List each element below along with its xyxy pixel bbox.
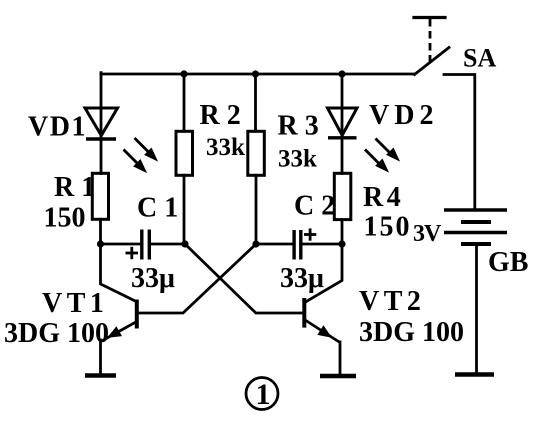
- figure number circle 1: [246, 378, 278, 412]
- ground VT2 emitter: [320, 374, 356, 379]
- svg-text:SA: SA: [463, 44, 496, 73]
- resistor R4: [334, 173, 351, 219]
- wire R2 to node B: [183, 175, 186, 244]
- svg-text:C 1: C 1: [137, 193, 178, 224]
- wire node A to C1: [101, 243, 141, 246]
- wire battery negative to ground: [475, 246, 478, 373]
- svg-text:VD1: VD1: [28, 112, 87, 143]
- wire switch right contact to battery: [444, 75, 475, 209]
- battery GB: [444, 210, 507, 244]
- svg-text:150: 150: [44, 203, 86, 234]
- transistor VT1: [101, 244, 137, 374]
- wire R4 to node D: [341, 220, 344, 244]
- wire node C to VT1 base cross-coupling: [139, 244, 256, 313]
- node VD2 top junction: [338, 70, 345, 77]
- wire VD2 to R4: [341, 139, 344, 174]
- node B: [181, 240, 188, 247]
- wire node B to VT2 base cross-coupling: [185, 244, 302, 313]
- ground battery: [455, 372, 494, 377]
- wire C2 to node D: [303, 243, 343, 246]
- svg-text:VT2: VT2: [359, 286, 425, 317]
- svg-text:VT1: VT1: [42, 288, 108, 319]
- svg-text:R 2: R 2: [200, 100, 241, 131]
- svg-text:33μ: 33μ: [280, 263, 324, 294]
- wire VD1 to R1: [100, 141, 103, 174]
- wire top rail: [101, 73, 414, 76]
- svg-text:R 1: R 1: [54, 172, 95, 203]
- wire R2 top drop: [183, 74, 186, 131]
- node C: [252, 240, 259, 247]
- node R3 top junction: [252, 70, 259, 77]
- svg-text:3DG 100: 3DG 100: [359, 317, 464, 348]
- wire R3 top drop: [254, 74, 257, 131]
- switch SA: [414, 18, 449, 75]
- svg-text:C 2: C 2: [294, 191, 335, 222]
- capacitor C1: [126, 230, 150, 260]
- svg-text:R4: R4: [363, 182, 404, 213]
- wire C1 to node B: [151, 243, 185, 246]
- svg-text:3DG 100: 3DG 100: [4, 318, 109, 349]
- transistor VT2: [304, 244, 342, 374]
- svg-text:1: 1: [256, 378, 271, 411]
- wire R3 to node C: [255, 175, 258, 244]
- resistor R3: [248, 131, 264, 175]
- svg-text:3V: 3V: [413, 221, 442, 247]
- ground VT1 emitter: [85, 373, 116, 378]
- wire node C to C2: [256, 243, 293, 246]
- resistor R2: [176, 131, 193, 175]
- capacitor C2: [294, 228, 316, 259]
- LED VD2: [328, 108, 399, 171]
- node D collector VT2: [338, 240, 345, 247]
- svg-text:R 3: R 3: [278, 111, 319, 142]
- svg-text:33k: 33k: [206, 134, 245, 161]
- resistor R1: [92, 173, 108, 219]
- node A collector VT1: [97, 240, 104, 247]
- svg-text:GB: GB: [488, 247, 528, 278]
- wire VD2 anode drop: [341, 74, 344, 138]
- wire R1 to node A: [99, 219, 102, 244]
- node R2 top junction: [180, 70, 187, 77]
- wire VD1 anode drop: [100, 73, 103, 139]
- svg-text:33μ: 33μ: [131, 263, 175, 294]
- LED VD1: [85, 108, 156, 171]
- svg-text:33k: 33k: [278, 146, 317, 173]
- svg-text:150: 150: [364, 212, 412, 243]
- svg-text:VD2: VD2: [369, 100, 438, 131]
